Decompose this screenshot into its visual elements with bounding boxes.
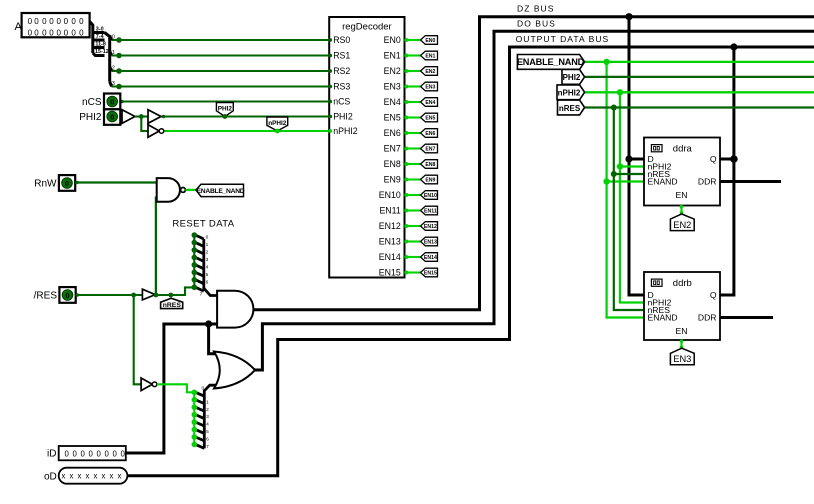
wire ddra DDR output: [720, 180, 781, 183]
tunnel EN0 sink: [421, 36, 438, 45]
svg-text:7-4: 7-4: [96, 34, 104, 40]
svg-text:EN6: EN6: [425, 131, 435, 137]
output pin oD: [44, 468, 127, 484]
svg-text:nPHI2: nPHI2: [558, 89, 581, 98]
svg-text:EN10: EN10: [424, 193, 437, 199]
junction nRES rail tap: [611, 105, 617, 111]
wire EN15: [405, 271, 421, 273]
tunnel EN5 sink: [421, 113, 438, 122]
splitter RESET DATA: [196, 235, 218, 295]
svg-text:11-8: 11-8: [95, 42, 106, 48]
or gate U8: [214, 352, 255, 389]
splitter B bit numbers: [112, 34, 115, 87]
svg-text:RESET DATA: RESET DATA: [172, 219, 234, 230]
svg-text:EN: EN: [676, 190, 688, 200]
svg-text:EN13: EN13: [424, 240, 437, 246]
wire EN12: [405, 225, 421, 227]
regDecoder input pin dots: [328, 38, 332, 118]
wire OUTPUT DATA BUS: [127, 47, 814, 476]
wire ENABLE_NAND vertical to ENAND pins: [607, 62, 644, 318]
svg-text:3: 3: [206, 414, 209, 420]
tunnel nRES source: [558, 100, 585, 115]
svg-text:DDR: DDR: [698, 313, 717, 323]
svg-text:ENAND: ENAND: [648, 313, 678, 323]
svg-text:EN15: EN15: [424, 271, 437, 277]
input pin PHI2: [79, 109, 120, 125]
nand gate U4: [157, 178, 186, 202]
wire buffer output to splitter: [155, 287, 194, 295]
wire ddrb EN stub: [680, 340, 682, 348]
wire NAND output: [185, 189, 196, 191]
svg-text:EN7: EN7: [384, 144, 401, 154]
input pin A: [15, 13, 90, 37]
wire EN0: [405, 39, 421, 41]
wire EN10: [405, 194, 421, 196]
tunnel EN12 sink: [421, 222, 438, 231]
svg-text:EN8: EN8: [384, 159, 401, 169]
svg-text:2: 2: [206, 407, 209, 413]
svg-text:0: 0: [112, 34, 115, 40]
junction DZ BUS tap: [625, 13, 632, 20]
wire RS3: [112, 85, 330, 87]
svg-text:iD: iD: [47, 449, 56, 460]
wire PHI2 rail: [585, 76, 814, 78]
buffer U2 on PHI2: [148, 110, 161, 124]
svg-text:nCS: nCS: [82, 97, 102, 108]
wire inverter output to splitter Z: [157, 384, 194, 392]
svg-text:00000000: 00000000: [28, 17, 84, 26]
splitter B nibble to RS bits: [105, 33, 112, 87]
wire EN1: [405, 54, 421, 56]
svg-text:EN12: EN12: [424, 224, 437, 230]
svg-text:EN14: EN14: [424, 255, 437, 261]
svg-text:EN12: EN12: [379, 221, 401, 231]
junction ddra Q tap: [730, 155, 738, 163]
wire EN6: [405, 132, 421, 134]
wire DZ BUS vertical to ddra/ddrb D: [629, 17, 644, 295]
wire EN13: [405, 240, 421, 242]
junction buffer U2 output: [162, 115, 166, 119]
svg-text:0: 0: [65, 291, 69, 300]
wire ddrb DDR output: [720, 316, 773, 319]
junction ddra ENAND tap: [603, 178, 609, 184]
svg-text:OUTPUT DATA BUS: OUTPUT DATA BUS: [516, 34, 610, 44]
junction ddra nRES tap: [611, 171, 617, 177]
svg-text:2: 2: [206, 250, 209, 256]
wire EN3: [405, 85, 421, 87]
svg-text:EN4: EN4: [384, 97, 401, 107]
svg-text:5: 5: [206, 272, 209, 278]
svg-text:3: 3: [206, 257, 209, 263]
junction ENABLE_NAND rail tap: [603, 59, 609, 65]
buffer U1 on PHI2: [122, 110, 135, 124]
svg-text:EN0: EN0: [425, 38, 435, 44]
svg-text:00000000: 00000000: [28, 28, 84, 37]
junction iD bus split: [205, 320, 212, 327]
junction ddra nPHI2 tap: [617, 163, 623, 169]
svg-text:nRES: nRES: [559, 104, 581, 113]
svg-text:EN13: EN13: [379, 237, 401, 247]
wire EN5: [405, 116, 421, 118]
svg-text:0: 0: [202, 385, 205, 391]
input pin nCS: [82, 94, 120, 110]
svg-text:DZ BUS: DZ BUS: [517, 4, 554, 14]
svg-text:0: 0: [206, 235, 209, 241]
svg-text:15-12: 15-12: [95, 49, 109, 55]
wire NAND input2 from /RES: [155, 197, 157, 296]
svg-text:EN1: EN1: [384, 51, 401, 61]
wire EN8: [405, 163, 421, 165]
subcircuit ddra: [644, 138, 720, 206]
svg-text:PHI2: PHI2: [79, 112, 102, 123]
svg-text:3-0: 3-0: [96, 27, 104, 33]
svg-text:6: 6: [206, 437, 209, 443]
tunnel nPHI2 source: [557, 85, 585, 100]
svg-text:EN5: EN5: [384, 113, 401, 123]
junction PHI2 branch: [139, 114, 144, 119]
tunnel EN7 sink: [421, 144, 438, 153]
input pin /RES: [34, 287, 76, 303]
wire nCS: [120, 100, 329, 102]
tunnel EN2: [670, 214, 694, 231]
wire EN14: [405, 256, 421, 258]
regDecoder input pin labels: [333, 35, 358, 136]
tunnel PHI2 source: [562, 70, 585, 85]
svg-text:EN5: EN5: [425, 116, 435, 122]
tunnel EN4 sink: [421, 98, 438, 107]
wire /RES to buffer: [76, 294, 143, 296]
wire nPHI2 vertical to nPHI2 pins: [620, 92, 644, 302]
wire iD bus to gates: [126, 324, 219, 453]
svg-text:RS2: RS2: [333, 66, 350, 76]
svg-text:nRES: nRES: [163, 302, 182, 309]
tunnel EN13 sink: [421, 237, 438, 246]
wire EN4: [405, 101, 421, 103]
inverter U7 for reset data: [141, 378, 157, 391]
svg-text:EN8: EN8: [425, 162, 435, 168]
svg-text:Q: Q: [710, 290, 717, 300]
splitter A 16-bit to nibbles: [90, 22, 105, 56]
svg-text:EN15: EN15: [379, 268, 401, 278]
wire RnW to NAND: [75, 181, 157, 183]
junction /RES branch: [131, 293, 136, 298]
svg-text:1: 1: [112, 50, 115, 56]
svg-text:EN: EN: [676, 326, 688, 336]
svg-text:2: 2: [112, 65, 115, 71]
wire /RES branch down to inverter: [134, 295, 141, 384]
tunnel nPHI2 sink: [267, 117, 288, 133]
svg-text:EN3: EN3: [384, 82, 401, 92]
svg-text:ddrb: ddrb: [673, 278, 692, 289]
wire RS0: [112, 39, 330, 41]
svg-text:ENABLE_NAND: ENABLE_NAND: [517, 57, 585, 67]
svg-text:7: 7: [206, 444, 209, 450]
input pin RnW: [34, 175, 75, 191]
svg-text:EN10: EN10: [379, 190, 401, 200]
tunnel nRES sink: [161, 298, 183, 309]
svg-text:EN6: EN6: [384, 128, 401, 138]
tunnel EN15 sink: [421, 268, 438, 277]
wire EN7: [405, 147, 421, 149]
splitter RESET DATA vertical wire: [193, 235, 195, 287]
wire nPHI2: [163, 130, 329, 132]
splitter A labels: [95, 27, 109, 56]
svg-text:RS1: RS1: [333, 51, 350, 61]
svg-text:EN11: EN11: [379, 206, 400, 216]
junction nRES tunnel tap: [168, 293, 173, 298]
svg-text:/RES: /RES: [34, 291, 58, 302]
svg-text:regDecoder: regDecoder: [342, 22, 392, 33]
svg-text:ENAND: ENAND: [648, 177, 678, 187]
svg-text:4: 4: [206, 422, 209, 428]
svg-text:EN11: EN11: [424, 209, 437, 215]
wire ENABLE_NAND rail: [585, 61, 814, 63]
and gate U6: [217, 291, 253, 328]
svg-text:EN2: EN2: [425, 69, 435, 75]
svg-text:EN0: EN0: [384, 35, 401, 45]
svg-text:nPHI2: nPHI2: [268, 120, 287, 127]
tunnel PHI2 sink: [216, 103, 233, 119]
svg-text:PHI2: PHI2: [218, 106, 233, 113]
svg-text:ENABLE_NAND: ENABLE_NAND: [197, 188, 245, 195]
input pin iD: [47, 446, 126, 460]
svg-text:4: 4: [206, 265, 209, 271]
tunnel ENABLE_NAND sink: [196, 184, 245, 196]
svg-text:DDR: DDR: [698, 177, 717, 187]
tunnel EN3: [670, 348, 694, 365]
wire nRES vertical to nRES pins: [614, 108, 644, 311]
svg-text:nCS: nCS: [333, 97, 350, 107]
wire EN11: [405, 209, 421, 211]
svg-text:EN9: EN9: [425, 178, 435, 184]
svg-text:0: 0: [65, 179, 69, 188]
svg-text:RS0: RS0: [333, 35, 350, 45]
svg-text:5: 5: [206, 429, 209, 435]
tunnel EN6 sink: [421, 129, 438, 138]
wire EN9: [405, 178, 421, 180]
svg-text:RS3: RS3: [333, 82, 350, 92]
svg-text:DO BUS: DO BUS: [517, 19, 556, 29]
svg-text:oD: oD: [44, 471, 57, 482]
wire RS1: [112, 54, 330, 56]
svg-text:0: 0: [110, 112, 114, 121]
wire EN2: [405, 70, 421, 72]
wire PHI2: [120, 115, 329, 117]
wire nRES rail: [585, 106, 814, 108]
svg-text:EN2: EN2: [673, 220, 691, 230]
svg-text:EN14: EN14: [379, 252, 401, 262]
tunnel EN14 sink: [421, 253, 438, 262]
svg-text:ddra: ddra: [673, 143, 693, 154]
svg-text:EN9: EN9: [384, 175, 401, 185]
junction nPHI2 rail tap: [617, 89, 623, 95]
splitter Z: [196, 385, 219, 448]
svg-text:RnW: RnW: [34, 179, 57, 190]
tunnel EN3 sink: [421, 82, 438, 91]
wire ddra EN stub: [680, 206, 682, 215]
wire nPHI2 rail: [585, 91, 814, 93]
tunnel EN8 sink: [421, 160, 438, 169]
wire PHI2 buffer link: [135, 115, 148, 117]
svg-text:nPHI2: nPHI2: [333, 126, 358, 136]
svg-text:EN2: EN2: [384, 66, 401, 76]
splitter Z vertical wire: [193, 392, 195, 444]
wire DO BUS: [252, 31, 814, 370]
wire OUTPUT DATA BUS vertical to ddra/ddrb Q: [720, 47, 734, 295]
svg-text:EN7: EN7: [425, 147, 435, 153]
subcircuit ddrb: [644, 272, 720, 340]
junction OUTPUT DATA BUS tap: [730, 43, 737, 50]
wire DZ BUS: [254, 17, 814, 310]
wire RS2: [112, 70, 330, 72]
junction ddra D tap: [625, 155, 632, 162]
svg-text:PHI2: PHI2: [563, 73, 581, 82]
tunnel EN10 sink: [421, 191, 438, 200]
svg-text:6: 6: [206, 279, 209, 285]
svg-text:PHI2: PHI2: [333, 112, 353, 122]
svg-text:EN3: EN3: [673, 354, 691, 364]
buffer U5 on /RES: [142, 289, 155, 300]
wire PHI2 branch down to inverter: [141, 117, 148, 132]
svg-text:EN3: EN3: [425, 85, 435, 91]
tunnel ENABLE_NAND source: [517, 55, 585, 70]
inverter U3 nPHI2: [148, 125, 164, 138]
tunnel EN1 sink: [421, 51, 438, 60]
svg-text:1: 1: [206, 399, 209, 405]
svg-text:7: 7: [200, 291, 203, 297]
svg-text:EN1: EN1: [425, 54, 435, 60]
svg-text:0: 0: [110, 97, 114, 106]
svg-text:Q: Q: [710, 154, 717, 164]
junction NAND input2 tap: [154, 293, 159, 298]
tunnel EN2 sink: [421, 67, 438, 76]
svg-text:EN4: EN4: [425, 100, 435, 106]
subcircuit regDecoder: [329, 17, 404, 278]
svg-text:1: 1: [206, 242, 209, 248]
tunnel EN9 sink: [421, 175, 438, 184]
tunnel EN11 sink: [421, 206, 438, 215]
svg-text:3: 3: [112, 81, 115, 87]
